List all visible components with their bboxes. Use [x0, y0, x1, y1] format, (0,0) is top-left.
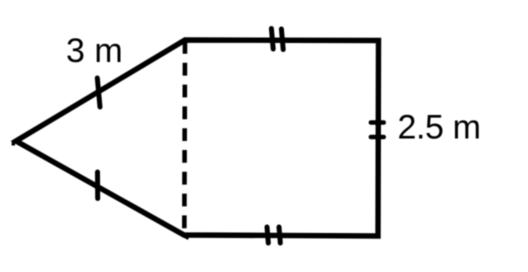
tick upper slant: [97, 78, 100, 107]
pentagon outline: [16, 40, 379, 236]
svg-text:3 m: 3 m: [66, 32, 123, 70]
right double tick: [371, 120, 384, 125]
dashed altitude: [182, 41, 187, 235]
wire overshoot at bottom-left vertex: [184, 235, 189, 238]
bottom double tick: [267, 227, 268, 243]
apex tail nub: [11, 142, 15, 146]
top double tick: [271, 29, 273, 50]
svg-text:2.5 m: 2.5 m: [398, 109, 481, 147]
tick lower slant: [95, 172, 100, 199]
